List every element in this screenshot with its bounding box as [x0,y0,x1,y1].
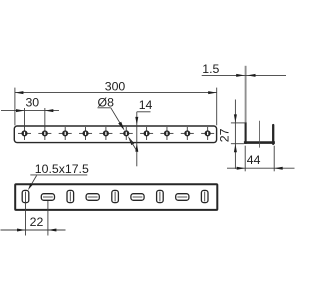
slot vertical 7 [157,190,164,202]
slot vertical 5 [112,190,119,202]
svg-text:14: 14 [139,98,153,112]
slot vertical 9 [201,190,208,202]
diameter 8 leader upper segment [111,108,123,128]
diameter 8 leader lower tail [130,139,138,152]
dimension 1.5 arrows [236,74,245,77]
dimension 27 extension top [231,122,246,124]
section centerline [259,121,261,148]
dimension 14 up arrow [135,144,138,152]
dimension 44 arrows [237,167,246,170]
section left wall [245,122,247,143]
dimension 27 arrows [234,114,237,123]
diameter 8 leader upper arrow [118,122,124,131]
dimension 300 line [15,92,217,94]
dimension 27 extension bottom [231,143,244,145]
dimension 22 line [1,229,66,231]
diameter 8 underline [98,107,111,109]
slot horizontal 4 [86,194,99,201]
dimension 14 vertical line [136,112,138,167]
rail side view outline [14,126,216,143]
section right wall [272,125,274,144]
diameter 8 leader lower arrow [128,136,134,145]
svg-text:44: 44 [247,153,261,167]
svg-text:10.5x17.5: 10.5x17.5 [35,162,89,176]
svg-text:1.5: 1.5 [202,62,219,76]
dimension 27 line [234,100,236,169]
hole row crosshair verticals [25,127,208,140]
slot horizontal 6 [131,194,144,201]
hole row crosshair horizontals [18,132,214,134]
dimension 14 underline [137,111,151,113]
dimension 30 arrows [16,109,25,112]
dimension 1.5 line [202,74,286,76]
slot leader arrow [28,183,33,190]
svg-text:Ø8: Ø8 [98,95,115,109]
svg-text:300: 300 [105,79,126,93]
dimension 44 line [227,167,295,169]
slot label underline [30,174,87,176]
rail face view outline [15,184,217,210]
dimension 300 extension lines [14,88,16,126]
dimension 22 arrows [17,229,26,232]
dimension 300 arrows [15,91,24,94]
slot vertical 3 [67,190,74,202]
dimension 22 extension lines [25,201,27,236]
holes D8 [21,130,210,136]
dimension 44 extension lines [244,146,246,172]
dimension 30 line [1,110,59,112]
section wall extension line gray [245,66,247,124]
svg-text:22: 22 [30,215,44,229]
slot horizontal 8 [176,194,189,201]
slot leader line [31,176,37,186]
dimension 30 extension lines [24,108,26,128]
slot vertical 1 [22,190,29,202]
section bottom [244,141,275,144]
svg-text:27: 27 [218,128,232,142]
slot horizontal 2 [41,194,54,201]
svg-text:30: 30 [25,96,39,110]
dimension 14 down arrow [135,117,138,125]
